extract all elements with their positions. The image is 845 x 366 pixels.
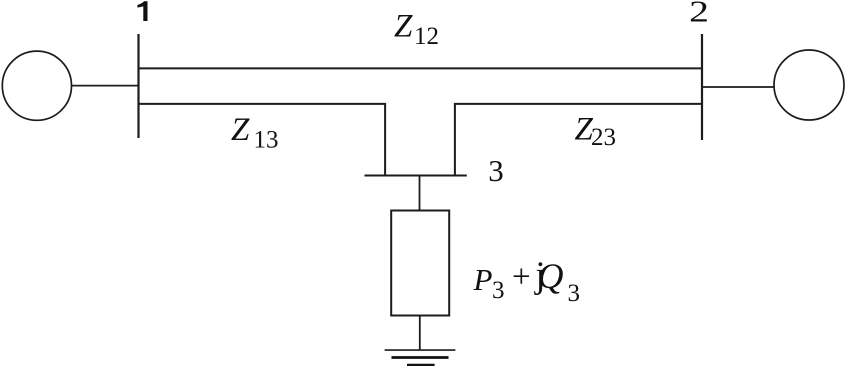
svg-text:P: P [473, 262, 493, 297]
svg-text:+: + [512, 259, 531, 295]
svg-text:Z: Z [231, 112, 250, 148]
svg-text:3: 3 [492, 277, 505, 304]
svg-text:3: 3 [568, 280, 581, 307]
svg-text:23: 23 [591, 124, 616, 151]
svg-text:2: 2 [689, 0, 709, 28]
svg-text:Z: Z [394, 9, 413, 45]
svg-text:3: 3 [488, 153, 504, 188]
svg-text:13: 13 [254, 127, 279, 154]
svg-text:12: 12 [414, 23, 439, 50]
svg-text:Q: Q [538, 256, 564, 296]
